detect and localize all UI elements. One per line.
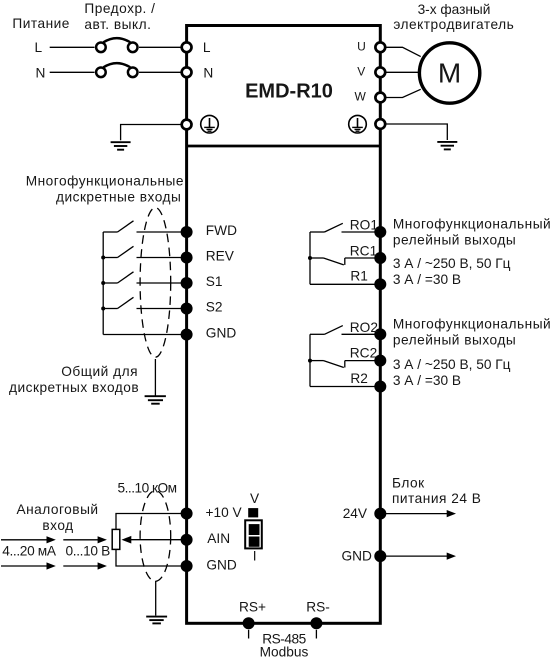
svg-text:M: M	[438, 58, 461, 89]
wire N breaker to terminal	[139, 71, 184, 73]
terminal R1	[374, 278, 386, 290]
svg-text:GND: GND	[206, 326, 237, 341]
circuit breaker pole N	[96, 63, 137, 77]
svg-text:EMD-R10: EMD-R10	[245, 81, 333, 103]
wire W to motor	[380, 89, 420, 97]
jumper V plug	[248, 508, 258, 517]
wire shield to ground analog	[155, 581, 157, 616]
label Аналоговый вход	[16, 502, 98, 533]
svg-text:R1: R1	[350, 269, 368, 284]
signal arrow 0-10V bottom	[63, 562, 107, 569]
terminal S1	[181, 277, 193, 289]
relay 1 junction	[308, 256, 312, 260]
svg-text:24V: 24V	[343, 506, 368, 521]
signal arrow 4-20mA top	[1, 536, 56, 543]
terminal GND analog	[181, 560, 193, 572]
terminal RC1	[374, 252, 386, 264]
svg-text:4...20 мА: 4...20 мА	[2, 544, 57, 559]
wire S1	[137, 282, 184, 284]
wire RC1	[345, 257, 381, 259]
svg-text:электродвигатель: электродвигатель	[393, 17, 514, 32]
svg-text:дискретные входы: дискретные входы	[56, 189, 181, 204]
terminal RO2	[374, 328, 386, 340]
signal arrow 4-20mA bottom	[1, 562, 56, 569]
terminal +10V	[181, 508, 193, 520]
wire pot bottom to GND	[116, 549, 183, 566]
EMD-R10 drive enclosure	[187, 26, 381, 624]
motor M1	[419, 43, 479, 103]
wire AIN with wiper arrow	[122, 536, 184, 544]
ground shield analog	[146, 617, 167, 624]
wire 24V output arrow	[380, 510, 456, 517]
relay 2 contact NO RO2	[310, 326, 343, 335]
wire pot top to +10V	[116, 514, 183, 530]
svg-text:+10 V: +10 V	[206, 505, 243, 520]
label 3-х фазный электродвигатель	[393, 2, 514, 32]
terminal AIN	[181, 534, 193, 546]
wire GND output arrow	[380, 553, 456, 560]
svg-text:0...10 В: 0...10 В	[66, 544, 111, 559]
stub RS-	[315, 630, 317, 639]
terminal V	[375, 67, 385, 77]
svg-text:3 А / ~250 В, 50 Гц: 3 А / ~250 В, 50 Гц	[393, 357, 511, 372]
svg-text:3 А / ~250 В, 50 Гц: 3 А / ~250 В, 50 Гц	[393, 256, 511, 271]
wire RC2	[345, 360, 381, 362]
switch S2	[103, 297, 133, 308]
wire GND common	[103, 334, 183, 336]
label relay 2 annotation	[393, 317, 550, 388]
svg-text:AIN: AIN	[207, 531, 230, 546]
terminal PE left	[182, 120, 192, 130]
terminal U	[375, 42, 385, 52]
wire U to motor	[380, 47, 420, 56]
svg-text:RS+: RS+	[239, 600, 266, 615]
shield oval analog input	[140, 491, 171, 582]
svg-text:RO1: RO1	[350, 218, 378, 233]
terminal N	[182, 67, 192, 77]
wire L breaker to terminal	[139, 46, 184, 48]
signal arrow 0-10V top	[63, 536, 107, 543]
circuit breaker pole L	[96, 38, 137, 52]
svg-text:RO2: RO2	[350, 320, 378, 335]
wire N input	[50, 71, 95, 73]
label Общий для дискретных входов	[9, 364, 139, 395]
svg-text:Многофункциональный: Многофункциональный	[393, 216, 550, 231]
switch REV	[103, 246, 133, 257]
terminal W	[375, 93, 385, 103]
svg-text:релейный выходы: релейный выходы	[393, 232, 516, 247]
terminal GND discrete	[181, 329, 193, 341]
svg-text:Предохр. /: Предохр. /	[84, 1, 155, 16]
svg-text:S2: S2	[206, 299, 223, 314]
terminal S2	[181, 303, 193, 315]
svg-text:питания 24 В: питания 24 В	[392, 491, 481, 506]
svg-text:3 А / =30 В: 3 А / =30 В	[393, 272, 461, 287]
svg-text:Многофункциональный: Многофункциональный	[393, 317, 550, 332]
potentiometer R1 analog	[112, 529, 120, 549]
relay 2 common bus	[309, 334, 311, 386]
wire R2	[310, 386, 380, 388]
PE symbol left	[201, 115, 219, 133]
svg-text:GND: GND	[342, 548, 373, 563]
stub RS+	[248, 630, 250, 639]
svg-text:V: V	[250, 491, 260, 506]
ground motor	[437, 142, 457, 150]
svg-text:L: L	[35, 40, 43, 55]
label Предохр. / авт. выкл.	[84, 1, 155, 32]
svg-text:L: L	[203, 40, 211, 55]
label Многофункциональные дискретные входы	[26, 173, 184, 204]
svg-text:Общий для: Общий для	[61, 364, 138, 379]
svg-text:GND: GND	[206, 557, 237, 572]
svg-text:Аналоговый: Аналоговый	[16, 502, 98, 517]
svg-text:Блок: Блок	[392, 475, 425, 490]
wire FWD	[137, 231, 184, 233]
svg-text:RC2: RC2	[350, 346, 377, 361]
svg-text:релейный выходы: релейный выходы	[393, 333, 516, 348]
label Блок питания 24 В	[392, 475, 481, 506]
svg-text:V: V	[357, 64, 365, 78]
wire S2	[137, 308, 184, 310]
relay 1 contact NO RO1	[310, 223, 343, 232]
wire PE left to ground	[121, 125, 182, 141]
svg-text:RC1: RC1	[350, 243, 377, 258]
label relay 1 annotation	[393, 216, 550, 287]
wire shield to ground discrete	[154, 359, 156, 396]
terminal RS-	[310, 617, 322, 629]
relay 1 common bus	[309, 232, 311, 284]
relay 2 contact NC RC2	[310, 361, 345, 368]
wire RO1	[342, 231, 381, 233]
terminal PE right	[375, 119, 385, 129]
terminal RS+	[243, 617, 255, 629]
svg-text:RS-: RS-	[306, 600, 330, 615]
svg-text:3 А / =30 В: 3 А / =30 В	[393, 373, 461, 388]
wire motor PE to ground	[380, 124, 447, 140]
svg-text:N: N	[203, 65, 213, 80]
ground shield discrete	[145, 396, 166, 404]
svg-text:дискретных входов: дискретных входов	[9, 380, 139, 395]
svg-text:R2: R2	[350, 371, 368, 386]
switch S1	[103, 272, 133, 283]
terminal RO1	[374, 226, 386, 238]
label RS-485 Modbus	[260, 632, 309, 659]
wire REV	[137, 257, 184, 259]
relay 2 junction	[308, 359, 312, 363]
switch FWD	[103, 221, 133, 232]
junction REV	[101, 256, 105, 260]
jumper block body	[245, 520, 262, 548]
svg-text:3-х фазный: 3-х фазный	[418, 2, 491, 17]
ground mains PE	[111, 142, 131, 150]
wire R1	[310, 283, 380, 285]
terminal R2	[374, 381, 386, 393]
PE symbol right	[349, 115, 367, 133]
enclosure divider	[187, 145, 381, 148]
junction S2	[101, 307, 105, 311]
wire V to motor	[380, 71, 419, 73]
terminal RC2	[374, 355, 386, 367]
common bus discrete inputs	[102, 232, 104, 335]
svg-text:FWD: FWD	[206, 223, 237, 238]
terminal REV	[181, 252, 193, 264]
svg-text:Питание: Питание	[12, 16, 70, 31]
terminal L	[182, 42, 192, 52]
svg-text:вход: вход	[42, 518, 73, 533]
terminal GND 24V	[374, 550, 386, 562]
junction S1	[101, 281, 105, 285]
wire L input	[50, 46, 95, 48]
svg-text:W: W	[355, 90, 367, 104]
shield oval discrete inputs	[140, 208, 171, 358]
svg-text:5...10 кОм: 5...10 кОм	[118, 480, 177, 495]
terminal FWD	[181, 226, 193, 238]
terminal 24V	[374, 508, 386, 520]
svg-text:I: I	[253, 548, 257, 563]
wire RO2	[342, 333, 381, 335]
svg-text:авт. выкл.: авт. выкл.	[84, 17, 151, 32]
svg-text:REV: REV	[206, 248, 235, 263]
svg-text:S1: S1	[206, 274, 223, 289]
relay 1 contact NC RC1	[310, 258, 345, 265]
svg-text:Modbus: Modbus	[260, 644, 309, 659]
svg-text:Многофункциональные: Многофункциональные	[26, 173, 184, 188]
svg-text:U: U	[357, 39, 366, 53]
svg-text:N: N	[36, 65, 46, 80]
